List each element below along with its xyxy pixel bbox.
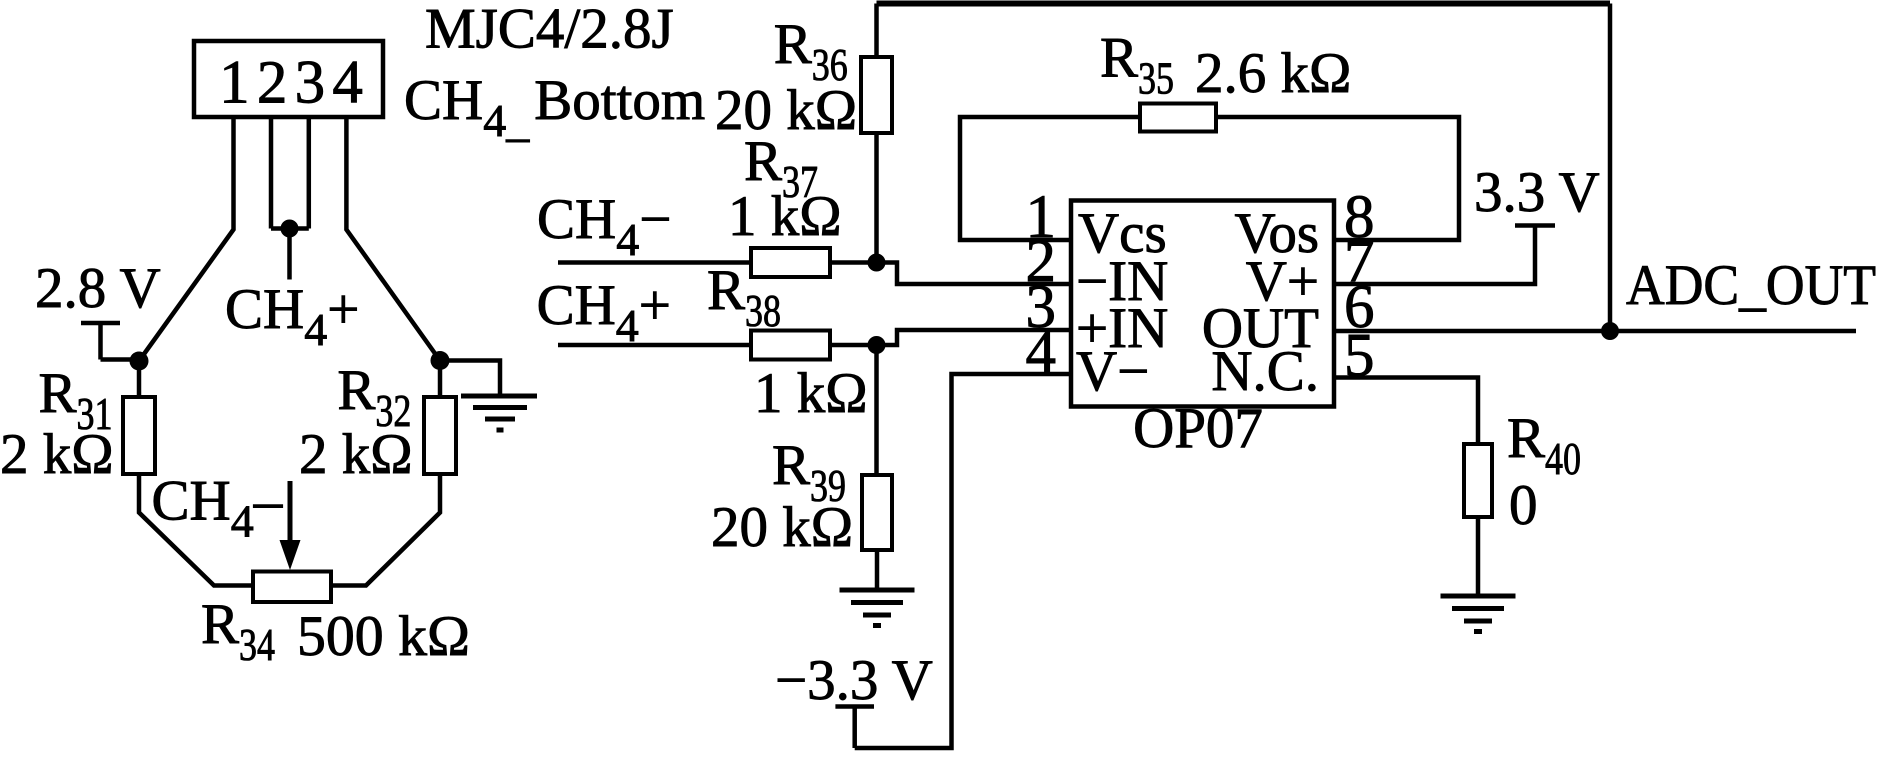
svg-text:5: 5 <box>1344 323 1375 390</box>
junction node A (left bridge node) <box>130 352 149 371</box>
ground symbol at bridge node B <box>461 396 537 430</box>
svg-text:2.6 kΩ: 2.6 kΩ <box>1195 42 1351 105</box>
wire R37 to inverting node <box>830 260 877 265</box>
svg-text:R35: R35 <box>1100 27 1174 104</box>
wire R39 to ground <box>875 550 880 588</box>
ground symbol below R40 <box>1441 596 1516 632</box>
wire -3.3V to op-amp pin 4 <box>855 374 1071 748</box>
wire op-amp pin 5 to R40 <box>1334 378 1478 445</box>
wire R35 to op-amp pin 8 <box>1216 117 1459 240</box>
wire 2.8V to node A <box>101 357 140 362</box>
svg-text:CH4–: CH4– <box>152 470 283 547</box>
power symbol 2.8 V <box>81 323 120 360</box>
svg-text:1 kΩ: 1 kΩ <box>754 362 868 425</box>
op-amp U1 OP07 box <box>1071 201 1334 407</box>
svg-text:R34: R34 <box>201 593 275 670</box>
sensor pin 2 lead wire <box>269 117 274 229</box>
wire stub to CH4+ label <box>287 229 292 280</box>
resistor R31 body <box>123 397 155 474</box>
svg-text:20 kΩ: 20 kΩ <box>715 79 857 142</box>
wire node B to ground <box>440 361 500 394</box>
resistor R40 body <box>1464 444 1492 517</box>
svg-text:0: 0 <box>1509 474 1538 537</box>
resistor R38 body <box>751 331 830 360</box>
svg-text:N.C.: N.C. <box>1211 340 1319 403</box>
wire node B to R32 <box>438 361 443 398</box>
wire node A to R31 <box>137 361 142 397</box>
svg-text:4: 4 <box>1026 319 1057 386</box>
resistor R37 body <box>751 248 830 277</box>
svg-text:2 kΩ: 2 kΩ <box>299 423 413 486</box>
svg-text:ADC_OUT: ADC_OUT <box>1626 254 1876 317</box>
resistor R32 body <box>424 397 456 474</box>
wire R34 to right branch <box>331 474 440 586</box>
wire CH4- input to R37 <box>558 260 751 265</box>
power symbol 3.3 V <box>1515 223 1555 228</box>
wire R36 to inverting node <box>874 133 879 263</box>
svg-text:−3.3 V: −3.3 V <box>775 649 933 712</box>
svg-text:1 2 3 4: 1 2 3 4 <box>219 50 362 117</box>
feedback top wire from ADC_OUT to R36 <box>877 1 1611 7</box>
wire inverting node to op-amp pin 2 <box>877 263 1072 285</box>
svg-text:CH4+: CH4+ <box>225 278 359 355</box>
svg-text:MJC4/2.8J: MJC4/2.8J <box>425 0 674 61</box>
potentiometer R34 body <box>253 572 331 603</box>
svg-text:CH4+: CH4+ <box>537 274 671 351</box>
svg-text:CH4−: CH4− <box>537 188 671 265</box>
resistor R35 body <box>1140 104 1216 132</box>
sensor pin 1 lead wire <box>139 117 234 361</box>
svg-text:3.3 V: 3.3 V <box>1474 161 1600 224</box>
wire non-inverting node to op-amp pin 3 <box>877 330 1072 345</box>
junction dot inverting node <box>868 254 886 272</box>
junction dot pins 2-3 <box>281 220 299 238</box>
wire R40 to ground <box>1476 517 1481 594</box>
svg-text:1 kΩ: 1 kΩ <box>728 185 842 248</box>
wire ADC_OUT node up to feedback top wire <box>1608 4 1613 332</box>
wiper arrowhead of R34 <box>280 540 301 570</box>
ground symbol below R39 <box>840 590 915 626</box>
svg-text:OP07: OP07 <box>1133 397 1263 460</box>
junction dot ADC_OUT node <box>1601 322 1619 340</box>
wire op-amp pin 6 OUT to ADC_OUT <box>1334 329 1856 334</box>
wire R31 to bridge bottom <box>139 474 253 586</box>
resistor R39 body <box>862 475 892 550</box>
wire top to R36 <box>874 4 879 58</box>
power symbol -3.3 V <box>835 707 874 749</box>
svg-text:2.8 V: 2.8 V <box>35 257 161 320</box>
wiper arrow line of R34 <box>288 481 293 545</box>
wire R38 to non-inverting node <box>830 343 877 348</box>
svg-text:V−: V− <box>1076 340 1149 403</box>
svg-text:R40: R40 <box>1507 407 1581 484</box>
svg-text:2 kΩ: 2 kΩ <box>0 423 114 486</box>
junction node B (right bridge node) <box>431 351 450 370</box>
sensor pin 3 lead wire <box>307 117 312 229</box>
wire op-amp pin 7 to 3.3V <box>1334 226 1535 285</box>
svg-text:CH4_Bottom: CH4_Bottom <box>404 69 705 146</box>
sensor header box (pins 1 2 3 4) <box>194 41 383 117</box>
resistor R36 body <box>861 57 892 133</box>
junction dot non-inverting node <box>868 336 886 354</box>
wire non-inverting node to R39 <box>874 345 879 475</box>
sensor pin 4 lead wire <box>346 117 440 361</box>
wire CH4+ input to R38 <box>558 343 751 348</box>
svg-text:500 kΩ: 500 kΩ <box>297 605 470 668</box>
wire joining pins 2 and 3 <box>271 226 309 231</box>
wire op-amp pin 1 to R35 <box>960 117 1140 240</box>
svg-text:20 kΩ: 20 kΩ <box>711 496 853 559</box>
